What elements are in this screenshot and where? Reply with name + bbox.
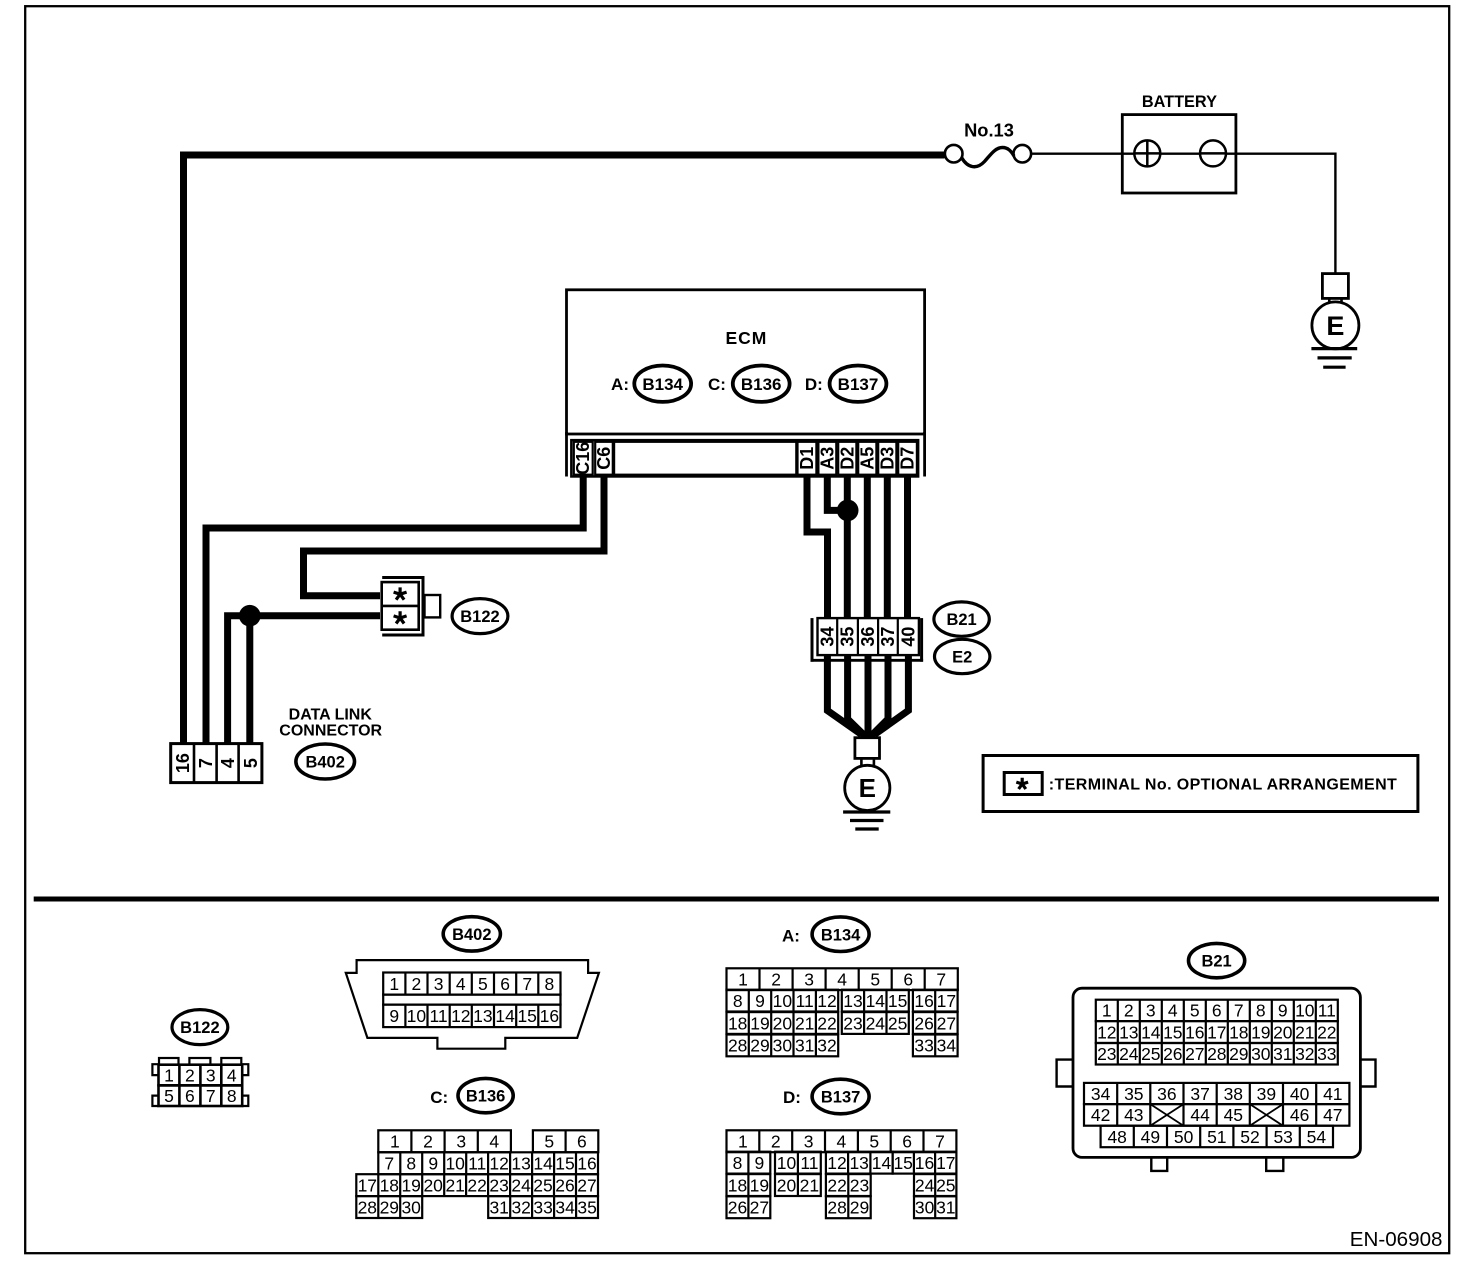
svg-text:20: 20 [1273,1022,1293,1042]
svg-text:9: 9 [428,1154,438,1174]
svg-text:31: 31 [795,1036,814,1056]
B137 row3 cells 20-21 [775,1174,821,1196]
wire ECM D7 to B21 pin40 [904,474,911,621]
svg-text:8: 8 [406,1154,416,1174]
connector B122 pin cells [382,582,419,630]
svg-text:45: 45 [1224,1105,1243,1125]
svg-text:E: E [859,773,876,803]
fuse wavy element [962,148,1015,167]
wire ECM A3 to junction on D2 wire [827,474,847,510]
svg-text:28: 28 [358,1197,377,1217]
svg-text:A:: A: [611,375,629,394]
B137 row3 cells 22-23 [826,1174,871,1196]
svg-text:23: 23 [843,1013,862,1033]
pinout connector B402 outline [346,960,599,1049]
B21 row cells 34-41 [1084,1083,1349,1104]
ground lines (battery E) [1311,347,1357,350]
pinout label B122 ellipse [172,1010,228,1045]
svg-text:1: 1 [390,1132,400,1152]
B402 pinout mid band [383,995,560,1005]
svg-text:26: 26 [728,1198,747,1218]
svg-text:28: 28 [728,1036,747,1056]
B122 pinout side lug top-right [242,1064,248,1075]
svg-text:19: 19 [750,1175,769,1195]
svg-text:8: 8 [733,1153,743,1173]
ground lines (E2) [843,810,890,813]
svg-text:14: 14 [866,991,886,1011]
svg-text:28: 28 [827,1198,846,1218]
svg-text:D7: D7 [898,447,918,470]
B134 row3 cells 23-25 [842,1012,909,1034]
svg-text:41: 41 [1323,1084,1342,1104]
svg-text:15: 15 [1163,1022,1182,1042]
svg-text:12: 12 [817,991,836,1011]
wire B21 pin34 to ground E [827,654,861,735]
pinout label B136 ellipse [458,1078,513,1112]
svg-text:16: 16 [577,1154,596,1174]
B134 row1 cells 1-7 [727,968,958,990]
B137 row3 cells 24-25 [914,1174,956,1196]
wire ECM D1 to B21 pin34 [807,474,828,621]
svg-text:3: 3 [206,1065,216,1085]
B134 row4 cells 28-32 [727,1035,839,1057]
svg-text:16: 16 [540,1006,559,1026]
svg-text:18: 18 [380,1176,399,1196]
svg-text:14: 14 [1141,1022,1161,1042]
svg-text:6: 6 [903,970,913,990]
B134 row2 cells 13-15 [842,990,909,1012]
svg-text:5: 5 [870,970,880,990]
battery B box [1122,115,1236,193]
B137 row4 cells 30-31 [914,1196,956,1218]
svg-text:17: 17 [936,1153,955,1173]
svg-text:No.13: No.13 [964,120,1014,141]
ECM left wall extension [565,432,568,477]
svg-text:5: 5 [1190,1001,1200,1021]
svg-text:53: 53 [1273,1127,1292,1147]
svg-text:8: 8 [733,991,743,1011]
svg-text:44: 44 [1190,1105,1210,1125]
svg-text:13: 13 [1119,1022,1138,1042]
B137 row2 cells 8-9 [727,1152,771,1174]
svg-text:7: 7 [206,1086,216,1106]
wire B21 pin37 to ground E [871,654,888,736]
connector B21/E2 pin box [818,618,919,655]
svg-text:12: 12 [451,1006,470,1026]
svg-text:13: 13 [511,1154,530,1174]
B122 pinout side lug top-left [152,1064,158,1075]
svg-text:EN-06908: EN-06908 [1350,1228,1443,1251]
svg-text:3: 3 [804,1132,814,1152]
svg-text:B21: B21 [946,611,976,629]
svg-text:B122: B122 [180,1019,219,1037]
terminal * (optional) upper [394,587,407,599]
svg-text:22: 22 [827,1175,846,1195]
ECM pin strip [571,440,918,476]
connector B122 outer shell [382,578,423,636]
svg-text:3: 3 [434,974,444,994]
svg-text:54: 54 [1307,1127,1327,1147]
B21 row cells 23-33 [1096,1043,1338,1065]
B137 row4 cells 28-29 [826,1196,871,1218]
ECM pin D2 [838,442,856,475]
svg-text:2: 2 [1124,1001,1134,1021]
svg-text:40: 40 [898,627,918,647]
svg-text:DATA LINK: DATA LINK [289,706,373,723]
svg-text:15: 15 [888,991,907,1011]
svg-text:23: 23 [1097,1044,1116,1064]
svg-text:9: 9 [755,1153,765,1173]
B402 pinout row 9-16 [383,1005,560,1028]
svg-text:22: 22 [467,1176,486,1196]
legend box [983,756,1418,812]
svg-text:27: 27 [577,1176,596,1196]
svg-text:38: 38 [1224,1084,1243,1104]
B122 pinout side lug bottom-left [152,1096,158,1106]
svg-text:13: 13 [849,1153,868,1173]
svg-text:C:: C: [430,1088,448,1107]
svg-text:24: 24 [511,1176,531,1196]
svg-text:6: 6 [1212,1001,1222,1021]
svg-text:22: 22 [1317,1022,1336,1042]
svg-text:50: 50 [1174,1127,1194,1147]
svg-text:20: 20 [777,1175,797,1195]
svg-text:3: 3 [1146,1001,1156,1021]
svg-text:12: 12 [827,1153,846,1173]
svg-text:35: 35 [838,627,858,647]
ECM pin D1 [798,442,817,475]
svg-text:B137: B137 [821,1089,860,1107]
svg-text:6: 6 [185,1086,195,1106]
svg-text:19: 19 [1251,1022,1270,1042]
battery positive terminal [1134,140,1160,166]
pinout connector B21 body [1073,988,1360,1157]
svg-text:7: 7 [522,974,532,994]
battery negative terminal [1200,140,1226,166]
svg-text:18: 18 [1229,1022,1248,1042]
svg-text:11: 11 [468,1154,486,1174]
svg-text:19: 19 [401,1176,420,1196]
svg-text:3: 3 [804,970,814,990]
svg-text:40: 40 [1290,1084,1310,1104]
svg-text:5: 5 [164,1086,174,1106]
svg-text:C16: C16 [573,442,593,475]
svg-text:17: 17 [1207,1022,1226,1042]
B21 pinout side lug right [1360,1060,1375,1087]
svg-text:27: 27 [937,1013,956,1033]
svg-text:30: 30 [401,1197,421,1217]
svg-text:18: 18 [728,1013,747,1033]
svg-text:27: 27 [750,1198,769,1218]
svg-text:15: 15 [893,1153,912,1173]
ground E (battery) [1322,274,1348,299]
junction node (A3/D2) [837,500,859,522]
wire ECM D2 to B21 pin35 [844,474,851,621]
B21 row cells 48-54 [1101,1126,1333,1148]
svg-text:D:: D: [783,1088,801,1107]
B122 pinout top tab left [159,1058,179,1065]
ECM pin D3 [878,442,896,475]
svg-text:30: 30 [773,1036,793,1056]
wire fuse to battery and battery to ground drop [1031,152,1335,154]
svg-text:21: 21 [445,1176,464,1196]
svg-text:33: 33 [533,1197,552,1217]
svg-text:32: 32 [1295,1044,1314,1064]
svg-text:11: 11 [796,991,814,1011]
svg-text:5: 5 [869,1132,879,1152]
svg-text:23: 23 [850,1175,869,1195]
svg-text:42: 42 [1091,1105,1110,1125]
svg-text:B402: B402 [305,754,344,772]
wire battery negative down to ground E [1334,153,1336,275]
B134 row2 cells 16-17 [913,990,958,1012]
svg-text:24: 24 [866,1013,886,1033]
svg-text:4: 4 [1168,1001,1178,1021]
B122 pinout top tab middle [189,1058,210,1065]
svg-text:35: 35 [577,1197,596,1217]
junction node (DLC 4/5) [239,605,261,627]
svg-text:12: 12 [489,1154,508,1174]
svg-text:B122: B122 [460,608,499,626]
svg-text:33: 33 [1317,1044,1336,1064]
svg-text:13: 13 [473,1006,492,1026]
svg-text:20: 20 [773,1013,793,1033]
svg-text:B21: B21 [1201,953,1231,971]
ECM pin A3 [818,442,836,475]
svg-text:16: 16 [173,753,193,773]
wire B21 pin40 to ground E [875,654,909,735]
data link connector B402 box [171,744,262,783]
svg-text:3: 3 [456,1132,466,1152]
wire ECM C6 to B122 upper pin [304,474,605,596]
svg-text:32: 32 [511,1197,530,1217]
svg-text:2: 2 [771,1132,781,1152]
svg-text:52: 52 [1240,1127,1259,1147]
svg-text:31: 31 [1273,1044,1292,1064]
svg-text:2: 2 [185,1065,195,1085]
svg-text:1: 1 [1102,1001,1112,1021]
connector label B402 ellipse [296,744,355,779]
svg-text:29: 29 [380,1197,399,1217]
fuse No.13 [945,145,963,163]
B137 row1 cells 1-7 [727,1130,957,1152]
B21/E2 shell left [811,618,814,662]
pinout label B137 ellipse [812,1079,869,1114]
svg-text:4: 4 [456,974,466,994]
svg-text:25: 25 [1141,1044,1160,1064]
svg-text:D2: D2 [837,447,857,470]
svg-text:5: 5 [544,1132,554,1152]
svg-text:14: 14 [533,1154,553,1174]
svg-text:B136: B136 [466,1088,505,1106]
svg-text:7: 7 [1234,1001,1244,1021]
svg-text:26: 26 [914,1013,933,1033]
B137 row4 cells 26-27 [727,1196,771,1218]
svg-text:6: 6 [500,974,510,994]
legend asterisk box [1004,773,1042,795]
svg-text:46: 46 [1290,1105,1309,1125]
svg-text:21: 21 [795,1013,814,1033]
ECM pin D7 [898,442,917,475]
B134 row3 cells 18-22 [727,1012,839,1034]
pinout label B134 ellipse [812,917,869,952]
svg-text:37: 37 [878,627,898,647]
svg-text:B136: B136 [741,375,782,394]
svg-text:39: 39 [1257,1084,1276,1104]
B21 row cells 42-47 with blanked cells [1084,1104,1349,1126]
svg-text:48: 48 [1107,1127,1126,1147]
svg-text:21: 21 [1295,1022,1314,1042]
svg-text:4: 4 [218,758,238,768]
B136 row4 cells 31-35 [488,1196,598,1218]
wire ECM D3 to B21 pin37 [884,474,891,621]
svg-text:4: 4 [837,1132,847,1152]
svg-text:1: 1 [738,970,748,990]
ECM pin C6 [595,442,613,475]
B21/E2 shell right [920,618,923,662]
svg-text:15: 15 [517,1006,536,1026]
ECM pin strip blank [614,442,796,475]
terminal * (optional) lower [394,611,407,623]
wire ECM A5 to B21 pin36 [864,474,871,621]
wire DLC pin4 to B122 lower pin [228,616,380,745]
B136 row1 cells 5-6 [533,1130,598,1152]
svg-text:8: 8 [545,974,555,994]
svg-text:1: 1 [389,974,399,994]
svg-text:2: 2 [423,1132,433,1152]
svg-text:BATTERY: BATTERY [1142,93,1217,111]
B21 blanked cell X marks [1150,1104,1183,1126]
connector ref B136 ellipse [733,366,790,402]
wire DLC pin16 to fuse No.13 [184,155,945,745]
svg-text:D1: D1 [797,447,817,470]
svg-text:E2: E2 [952,649,972,667]
svg-text:51: 51 [1207,1127,1226,1147]
B21 row cells 1-11 [1096,1000,1338,1021]
svg-text:35: 35 [1124,1084,1143,1104]
svg-text:1: 1 [738,1132,748,1152]
svg-text:16: 16 [915,1153,934,1173]
svg-text:28: 28 [1207,1044,1226,1064]
svg-text:43: 43 [1124,1105,1143,1125]
svg-text:47: 47 [1323,1105,1342,1125]
svg-text:D:: D: [805,375,823,394]
connector label B122 ellipse [452,599,508,634]
svg-text:5: 5 [241,758,261,768]
pinout label B402 ellipse [443,917,500,951]
wire B21 pin36 to ground E [865,654,872,737]
svg-text:10: 10 [1295,1001,1315,1021]
B402 pinout row 1-8 [383,973,560,995]
svg-text:34: 34 [1091,1084,1111,1104]
svg-text:B402: B402 [452,926,491,944]
svg-text:14: 14 [872,1153,892,1173]
wire B21 pin35 to ground E [848,654,865,736]
svg-text:17: 17 [358,1176,377,1196]
ECM box U1 [567,290,925,434]
svg-text:8: 8 [1256,1001,1266,1021]
B21 row cells 12-22 [1096,1021,1338,1043]
B134 row2 cells 8-12 [727,990,839,1012]
svg-text:15: 15 [555,1154,574,1174]
svg-text:18: 18 [728,1175,747,1195]
svg-text:14: 14 [495,1006,515,1026]
svg-text:36: 36 [858,627,878,647]
ECM right wall extension [923,432,926,477]
svg-text:9: 9 [755,991,765,1011]
svg-text:ECM: ECM [725,328,767,348]
svg-text:25: 25 [936,1175,955,1195]
svg-text:13: 13 [843,991,862,1011]
B137 row3 cells 18-19 [727,1174,771,1196]
connector ref B134 ellipse [634,366,691,402]
B137 row2 cells 10-11 [775,1152,821,1174]
svg-text:4: 4 [837,970,847,990]
svg-text:30: 30 [915,1198,935,1218]
B136 row1 cells 1-4 [378,1130,511,1152]
svg-text:A:: A: [782,926,800,945]
svg-text:32: 32 [817,1036,836,1056]
svg-text:31: 31 [489,1197,508,1217]
B122 pinout top tab right [221,1058,241,1065]
svg-text:17: 17 [937,991,956,1011]
svg-text:CONNECTOR: CONNECTOR [279,723,382,740]
B122 pinout row 1-4 [159,1065,243,1086]
ECM pin A5 [858,442,876,475]
svg-text:21: 21 [800,1175,819,1195]
ECM pin C16 [574,442,593,475]
svg-text:22: 22 [817,1013,836,1033]
svg-text:25: 25 [888,1013,907,1033]
svg-text:9: 9 [1278,1001,1288,1021]
svg-text:34: 34 [937,1036,957,1056]
svg-text:D3: D3 [877,447,897,470]
svg-text:36: 36 [1157,1084,1176,1104]
svg-text:B134: B134 [642,375,683,394]
svg-text:10: 10 [407,1006,427,1026]
svg-text:25: 25 [533,1176,552,1196]
connector label B21 ellipse [934,602,989,636]
wire ECM C16 to DLC pin7 [206,474,583,745]
B136 row2 cells 7-16 [378,1152,598,1174]
B122 pinout side lug bottom-right [242,1096,248,1106]
svg-text:19: 19 [750,1013,769,1033]
svg-text:10: 10 [445,1154,465,1174]
svg-text:16: 16 [1185,1022,1204,1042]
B21 pinout bottom tab left [1151,1157,1167,1171]
svg-text:10: 10 [777,1153,797,1173]
svg-text:30: 30 [1251,1044,1271,1064]
svg-text:34: 34 [555,1197,575,1217]
svg-text:A3: A3 [817,447,837,470]
svg-text:E: E [1326,311,1344,341]
connector B122 latch tab [425,595,441,617]
pinout label B21 ellipse [1189,943,1245,977]
svg-text:4: 4 [489,1132,499,1152]
svg-text:37: 37 [1190,1084,1209,1104]
svg-text:26: 26 [1163,1044,1182,1064]
svg-text:2: 2 [771,970,781,990]
svg-text:7: 7 [384,1154,394,1174]
svg-text:B134: B134 [821,926,861,944]
B21/E2 shell bottom [811,659,924,662]
svg-text:23: 23 [489,1176,508,1196]
wire DLC pin5 to junction [246,616,253,745]
svg-text:16: 16 [914,991,933,1011]
svg-text:20: 20 [423,1176,443,1196]
svg-text:29: 29 [1229,1044,1248,1064]
svg-text:8: 8 [227,1086,237,1106]
